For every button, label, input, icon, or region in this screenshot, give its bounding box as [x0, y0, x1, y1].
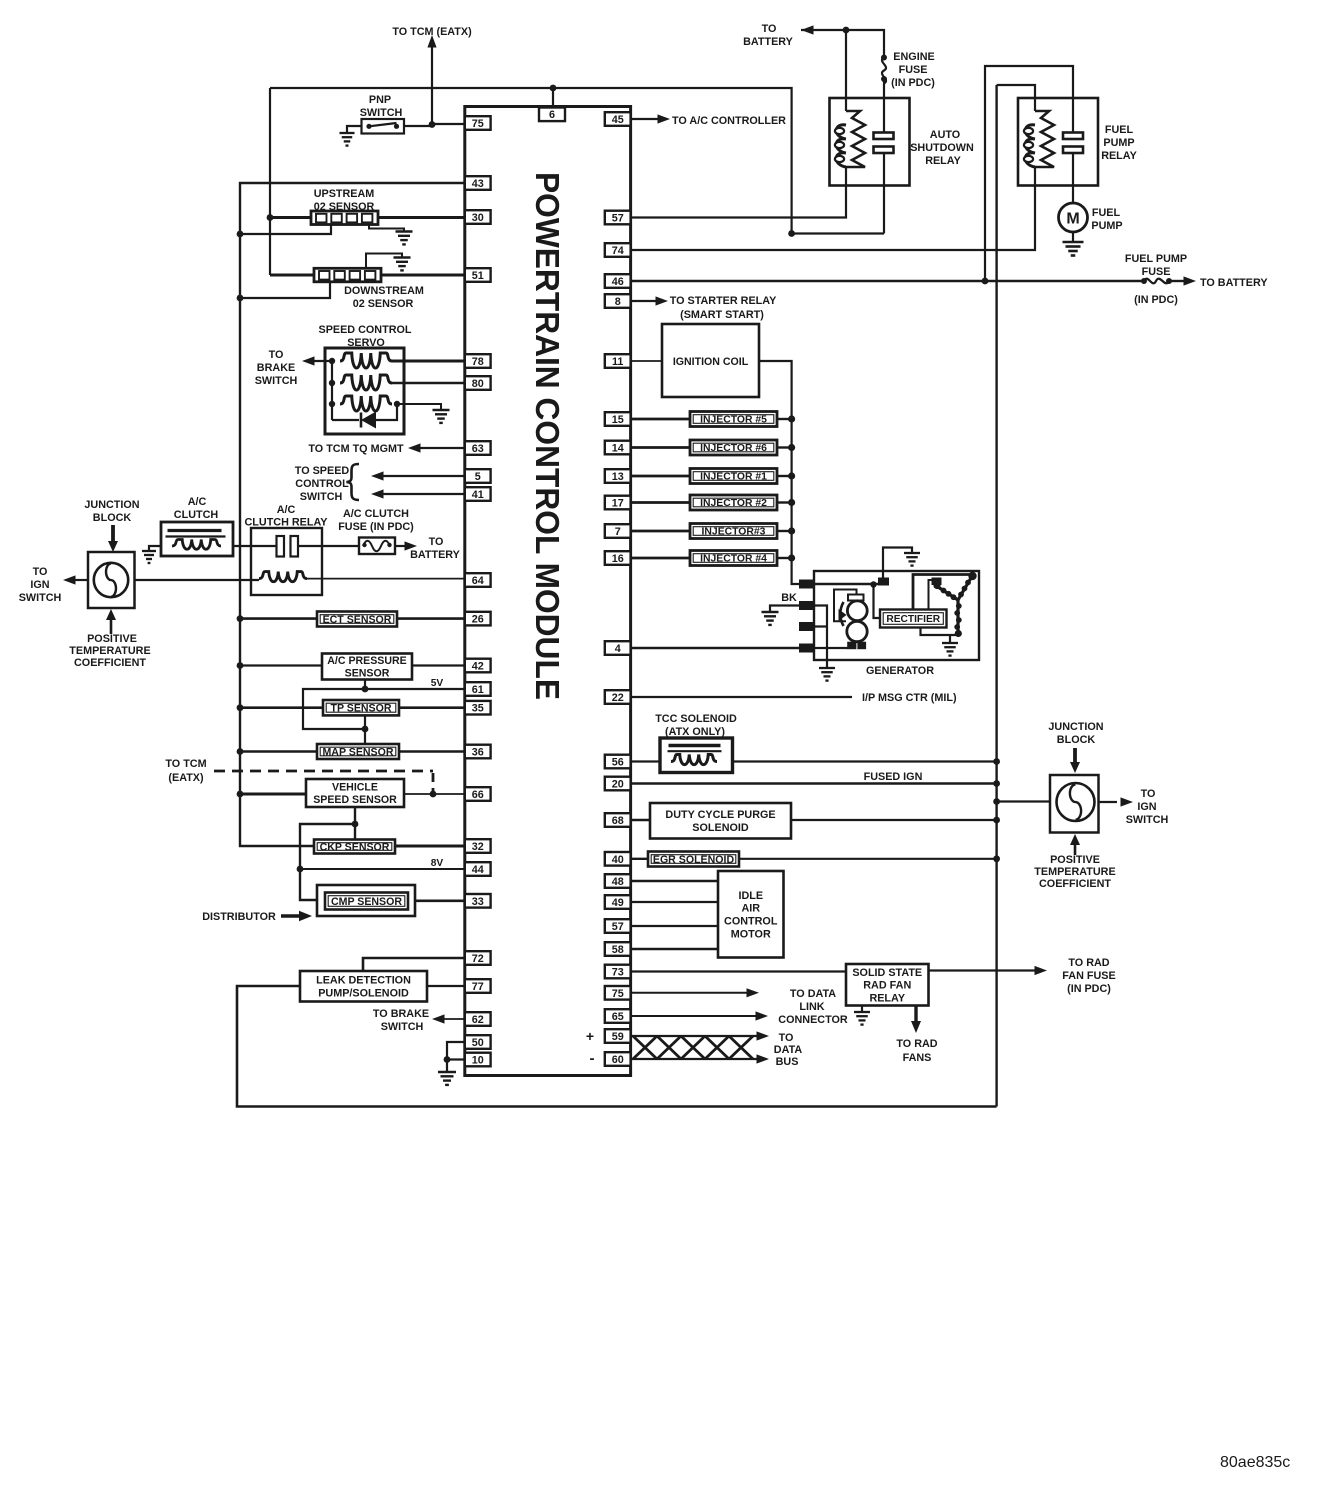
injector INJECTOR #5 box — [690, 412, 777, 427]
wire junction block top arrow stem — [111, 525, 115, 542]
wire downstream lower pin stub — [240, 282, 330, 298]
wire rectifier gnd stem — [949, 635, 951, 643]
svg-text:BRAKE: BRAKE — [257, 362, 295, 374]
svg-text:74: 74 — [612, 245, 624, 257]
wire EGR to rail — [739, 858, 997, 860]
sensor TP box — [323, 700, 399, 715]
node 8V junction — [297, 866, 304, 873]
generator terminal T4 — [800, 644, 815, 652]
node injector bus 6 — [788, 554, 795, 561]
wire data bus + line — [631, 1035, 757, 1037]
relay fuel pump contacts — [1063, 133, 1083, 140]
wire pin to INJECTOR #5 — [631, 418, 690, 421]
svg-text:32: 32 — [472, 841, 484, 853]
PCM module U1 box (POWERTRAIN CONTROL MODULE) — [465, 107, 631, 1076]
wire rad fan relay to fuse arrow — [929, 969, 1037, 971]
node servo r3 right — [394, 401, 400, 407]
PCM pin 17 (right) — [605, 496, 631, 510]
svg-text:FAN FUSE: FAN FUSE — [1062, 970, 1115, 982]
wire servo row1 to pin 78 — [392, 360, 465, 363]
arrow to data link 1 — [747, 988, 760, 997]
PCM pin 66 (left) — [465, 787, 491, 801]
arrow to rad fan fuse — [1035, 966, 1048, 975]
svg-text:BATTERY: BATTERY — [410, 549, 461, 561]
wire INJECTOR #2 to bus — [777, 501, 792, 503]
connector upstream O2 sensor — [311, 211, 378, 225]
wire 5V bus pin 61 — [303, 689, 465, 729]
PCM pin 60 (right) — [605, 1052, 631, 1066]
wire INJECTOR#3 to bus — [777, 530, 792, 532]
svg-text:14: 14 — [612, 443, 624, 455]
svg-text:(EATX): (EATX) — [168, 772, 204, 784]
wire leak box bottom loop — [237, 986, 997, 1107]
generator terminal T3 — [800, 623, 815, 631]
fuse ENGINE FUSE (IN PDC) — [881, 55, 887, 61]
node rail JB arm — [993, 798, 1000, 805]
svg-text:RELAY: RELAY — [1101, 150, 1137, 162]
leak detection box — [300, 971, 427, 1002]
generator inner frame — [913, 575, 973, 611]
svg-text:BLOCK: BLOCK — [1057, 734, 1096, 746]
svg-text:20: 20 — [612, 779, 624, 791]
svg-text:5: 5 — [475, 471, 481, 483]
svg-text:65: 65 — [612, 1011, 624, 1023]
PCM pin 35 (left) — [465, 701, 491, 715]
wire pin 65 data link arrow — [631, 1015, 757, 1017]
solenoid TCC box — [660, 738, 733, 773]
svg-text:TO TCM: TO TCM — [165, 758, 206, 770]
generator terminal T1 — [800, 580, 815, 588]
node ACP 5V — [362, 686, 369, 693]
PCM pin 33 (left) — [465, 894, 491, 908]
arrow TO TCM TQ MGMT — [408, 443, 421, 452]
wire rail to ECT — [240, 617, 317, 620]
svg-text:MOTOR: MOTOR — [731, 928, 771, 940]
svg-text:FANS: FANS — [903, 1052, 932, 1064]
node fuel pump loop — [982, 278, 989, 285]
arrow to data link 2 — [756, 1011, 769, 1020]
svg-text:A/C PRESSURE: A/C PRESSURE — [327, 655, 406, 667]
arrow TO BATTERY (right) — [1184, 276, 1197, 285]
node rail duty — [993, 817, 1000, 824]
svg-text:IDLE: IDLE — [738, 890, 763, 902]
wire downstream O2 to pin 51 — [381, 274, 465, 277]
motor idle air control box — [718, 871, 784, 958]
wire fuel pump loop left — [985, 66, 1073, 281]
svg-text:CLUTCH: CLUTCH — [174, 509, 219, 521]
junction block right body — [1050, 775, 1099, 833]
wire junction block right arm — [997, 800, 1050, 802]
solenoid duty cycle purge box — [650, 803, 791, 839]
ground G5 (A/C clutch) — [142, 550, 156, 552]
svg-text:PNP: PNP — [369, 94, 391, 106]
wire junction block right top arrow stem — [1073, 748, 1077, 763]
wire pin 5 arrow — [381, 475, 465, 477]
svg-text:(ATX ONLY): (ATX ONLY) — [665, 726, 725, 738]
brace speed control switch — [347, 464, 360, 500]
node pin10 gnd — [444, 1056, 451, 1063]
node rail fused ign — [993, 780, 1000, 787]
svg-text:TEMPERATURE: TEMPERATURE — [1034, 866, 1115, 878]
svg-text:UPSTREAM: UPSTREAM — [314, 188, 375, 200]
svg-text:BK: BK — [781, 592, 797, 604]
PCM pin 49 (right) — [605, 895, 631, 909]
svg-text:INJECTOR #4: INJECTOR #4 — [700, 554, 767, 565]
PCM pin 36 (left) — [465, 745, 491, 759]
node injector bus 2 — [788, 444, 795, 451]
wire pin 6 stem — [552, 88, 554, 108]
svg-text:56: 56 — [612, 757, 624, 769]
svg-text:+: + — [586, 1028, 594, 1044]
svg-text:80: 80 — [472, 378, 484, 390]
relay ASD contacts — [874, 133, 894, 140]
node top bus / pin6 — [550, 85, 557, 92]
wire pin 40 to EGR — [631, 858, 648, 860]
wire relay coil to pin 64 — [307, 578, 465, 580]
PCM pin 4 (right) — [605, 641, 631, 655]
PCM pin 57 (right) — [605, 211, 631, 225]
svg-text:8: 8 — [615, 296, 621, 308]
svg-text:SHUTDOWN: SHUTDOWN — [910, 142, 974, 154]
node rail ACP — [237, 662, 244, 669]
injector INJECTOR #4 box — [690, 551, 777, 566]
wire pin 45 arrow — [631, 118, 659, 120]
svg-text:BLOCK: BLOCK — [93, 512, 132, 524]
svg-text:ENGINE: ENGINE — [893, 51, 934, 63]
sensor CKP box — [314, 840, 395, 854]
svg-text:22: 22 — [612, 692, 624, 704]
arrow TO BATTERY (top) — [801, 25, 814, 34]
arrow TO BATTERY (A/C fuse) — [405, 541, 418, 550]
PCM pin 75 (left) — [465, 116, 491, 130]
node injector bus 3 — [788, 472, 795, 479]
svg-text:(SMART START): (SMART START) — [680, 309, 764, 321]
svg-text:CLUTCH RELAY: CLUTCH RELAY — [245, 517, 329, 529]
svg-text:COEFFICIENT: COEFFICIENT — [74, 657, 146, 669]
node PNP / TCM riser — [429, 121, 436, 128]
wire pin 22 MIL — [631, 696, 852, 698]
svg-text:CMP SENSOR: CMP SENSOR — [331, 896, 402, 908]
wire pin to INJECTOR #4 — [631, 557, 690, 560]
wire pin 62 brake arrow — [442, 1018, 465, 1020]
wire engine fuse to ASD contact — [883, 79, 885, 132]
svg-text:SWITCH: SWITCH — [255, 375, 298, 387]
PCM pin 80 (left) — [465, 376, 491, 390]
wire pin 4 to generator — [631, 647, 800, 649]
wire pin 75b data link arrow — [631, 992, 748, 994]
wire INJECTOR #1 to bus — [777, 475, 792, 477]
rectifier box — [880, 610, 947, 628]
wire generator field internal — [814, 583, 883, 585]
PCM pin 74 (right) — [605, 243, 631, 257]
PCM pin 42 (left) — [465, 659, 491, 673]
svg-text:41: 41 — [472, 489, 484, 501]
svg-text:TO RAD: TO RAD — [896, 1038, 937, 1050]
svg-text:66: 66 — [472, 789, 484, 801]
svg-text:INJECTOR #1: INJECTOR #1 — [700, 472, 767, 483]
servo coil row2 — [340, 375, 392, 390]
sensor VEHICLE SPEED box — [306, 779, 404, 807]
svg-text:(IN PDC): (IN PDC) — [1134, 294, 1178, 306]
svg-text:SWITCH: SWITCH — [19, 592, 62, 604]
svg-text:INJECTOR #5: INJECTOR #5 — [700, 415, 767, 426]
PCM pin 48 (right) — [605, 874, 631, 888]
generator box — [814, 571, 979, 660]
wire upstream lower pin stub — [240, 225, 331, 234]
wire rad fans arrow stem — [914, 1006, 917, 1023]
relay A/C clutch box — [251, 528, 322, 595]
svg-text:80ae835c: 80ae835c — [1220, 1454, 1290, 1471]
svg-text:PUMP/SOLENOID: PUMP/SOLENOID — [318, 988, 409, 1000]
svg-text:45: 45 — [612, 114, 624, 126]
arrow into junction block right bottom — [1070, 834, 1080, 845]
ground G8 (generator BK) — [762, 611, 779, 613]
ground G1 (PNP switch) — [340, 132, 355, 134]
injector INJECTOR #6 box — [690, 440, 777, 455]
injector INJECTOR#3 box — [690, 524, 777, 539]
wire 8V pin 44 — [300, 868, 465, 870]
arrow to A/C controller — [658, 114, 671, 123]
wire pin 41 arrow — [381, 493, 465, 495]
PCM pin 20 (right) — [605, 777, 631, 791]
ground G2 (upstream O2) — [396, 230, 413, 232]
wire upstream O2 to pin 30 — [378, 216, 465, 219]
arrow to rad fans — [911, 1021, 921, 1033]
arrow to starter relay — [656, 296, 669, 305]
relay ASD box — [830, 98, 910, 186]
injector INJECTOR #2 box — [690, 495, 777, 510]
wire VSS to pin 66 — [404, 793, 465, 795]
svg-text:57: 57 — [612, 921, 624, 933]
svg-text:13: 13 — [612, 471, 624, 483]
wire PNP to ground stem — [347, 126, 362, 133]
wire TP 5V stub — [364, 715, 366, 729]
svg-text:49: 49 — [612, 897, 624, 909]
svg-text:75: 75 — [612, 988, 624, 1000]
wire dashed TO TCM (EATX) — [214, 770, 433, 773]
svg-text:RELAY: RELAY — [869, 992, 905, 1004]
svg-text:A/C CLUTCH: A/C CLUTCH — [343, 508, 409, 520]
svg-text:TO: TO — [429, 536, 444, 548]
svg-text:INJECTOR #6: INJECTOR #6 — [700, 443, 767, 454]
wire servo row3 to ground — [397, 404, 441, 410]
svg-text:SWITCH: SWITCH — [1126, 814, 1169, 826]
wire pin to INJECTOR#3 — [631, 530, 690, 533]
svg-text:TP SENSOR: TP SENSOR — [330, 703, 391, 715]
svg-text:FUEL PUMP: FUEL PUMP — [1125, 253, 1187, 265]
wire contacts to motor — [1072, 153, 1074, 203]
svg-text:42: 42 — [472, 661, 484, 673]
PCM pin 41 (left) — [465, 487, 491, 501]
svg-text:IGN: IGN — [1137, 801, 1156, 813]
wire data bus crosshatch — [633, 1036, 753, 1059]
svg-text:46: 46 — [612, 276, 624, 288]
arrow to speed control switch 2 — [371, 489, 384, 498]
svg-text:ECT SENSOR: ECT SENSOR — [323, 614, 392, 626]
wire servo row2 to pin 80 — [392, 382, 465, 384]
arrow data bus - — [757, 1054, 770, 1063]
svg-text:TO STARTER RELAY: TO STARTER RELAY — [670, 295, 777, 307]
svg-text:EGR SOLENOID: EGR SOLENOID — [653, 854, 735, 866]
node rail B 234 — [237, 231, 244, 238]
svg-text:TEMPERATURE: TEMPERATURE — [69, 645, 150, 657]
svg-text:DISTRIBUTOR: DISTRIBUTOR — [202, 911, 276, 923]
svg-text:TO: TO — [779, 1032, 794, 1044]
wire fused ign riser top — [997, 85, 1035, 111]
wire A/C clutch to relay contact — [233, 545, 277, 547]
node generator field — [870, 581, 876, 587]
servo coil row1 — [340, 353, 392, 368]
svg-text:A/C: A/C — [277, 504, 296, 516]
PCM pin 44 (left) — [465, 862, 491, 876]
svg-text:SWITCH: SWITCH — [300, 491, 343, 503]
wire INJECTOR #5 to bus — [777, 418, 792, 420]
svg-text:TO BATTERY: TO BATTERY — [1200, 277, 1268, 289]
sensor CMP box — [325, 893, 408, 910]
arrow data bus + — [757, 1031, 770, 1040]
wire fuel pump coil to pin 74 — [631, 167, 1035, 250]
arrow to speed control switch 1 — [371, 471, 384, 480]
servo coil row3 — [340, 396, 392, 411]
node injector bus 4 — [788, 499, 795, 506]
svg-text:POSITIVE: POSITIVE — [87, 633, 137, 645]
relay fuel pump box — [1018, 98, 1098, 186]
PCM pin 11 (right) — [605, 354, 631, 368]
svg-text:(IN PDC): (IN PDC) — [891, 77, 935, 89]
PCM pin 59 (right) — [605, 1029, 631, 1043]
svg-text:7: 7 — [615, 526, 621, 538]
wire pin to INJECTOR #1 — [631, 475, 690, 478]
svg-text:SOLENOID: SOLENOID — [692, 822, 749, 834]
wire pin 10 gnd — [447, 1058, 465, 1060]
svg-text:TO: TO — [762, 23, 777, 35]
svg-text:CONNECTOR: CONNECTOR — [778, 1014, 848, 1026]
relay fuel pump coil — [1035, 111, 1054, 167]
wire T2 T3 internal gnd — [815, 606, 827, 669]
svg-text:TCC SOLENOID: TCC SOLENOID — [655, 713, 737, 725]
motor FUEL PUMP M1 — [1059, 203, 1088, 232]
sensor CMP outer box — [317, 885, 415, 916]
wire pin 50 gnd — [447, 1042, 465, 1072]
PCM pin 63 (left) — [465, 441, 491, 455]
svg-text:RELAY: RELAY — [925, 155, 961, 167]
PCM pin 7 (right) — [605, 524, 631, 538]
wire MAP to pin 36 — [399, 750, 465, 752]
svg-text:FUSE: FUSE — [899, 64, 928, 76]
wire distributor arrow — [281, 914, 301, 917]
arrow to brake switch — [302, 356, 315, 365]
svg-text:(IN PDC): (IN PDC) — [1067, 983, 1111, 995]
svg-text:30: 30 — [472, 212, 484, 224]
sensor ECT box — [317, 612, 397, 627]
svg-text:A/C: A/C — [188, 496, 207, 508]
svg-text:MAP SENSOR: MAP SENSOR — [322, 746, 393, 758]
svg-text:SWITCH: SWITCH — [381, 1021, 424, 1033]
wire CKP to pin 32 — [395, 845, 465, 848]
PCM pin 50 (left) — [465, 1035, 491, 1049]
ground G3 (downstream O2) — [394, 256, 411, 258]
wire pin to INJECTOR #6 — [631, 446, 690, 449]
wire fuse to battery arrow — [395, 545, 406, 547]
node servo r2 — [329, 380, 335, 386]
svg-text:CONTROL: CONTROL — [724, 916, 778, 928]
wire TO TCM (EATX) riser — [431, 46, 433, 124]
svg-text:PUMP: PUMP — [1091, 220, 1122, 232]
wire top bus to A/C controller loop — [270, 88, 792, 234]
node rail MAP — [237, 748, 244, 755]
arrow to brake switch (pin62) — [432, 1014, 445, 1023]
wire rail to A/C pressure — [240, 664, 322, 666]
PCM pin 68 (right) — [605, 813, 631, 827]
wire relay contact to fuse — [298, 545, 359, 547]
svg-text:78: 78 — [472, 356, 484, 368]
svg-text:4: 4 — [615, 643, 621, 655]
svg-text:FUSED IGN: FUSED IGN — [864, 771, 923, 783]
wire VSS stem to CKP — [354, 807, 356, 840]
svg-text:COEFFICIENT: COEFFICIENT — [1039, 878, 1111, 890]
node rail EGR — [993, 855, 1000, 862]
generator stator Y-winding — [938, 587, 958, 600]
ground G7 (fuel pump) — [1063, 241, 1084, 244]
PCM pin 30 (left) — [465, 210, 491, 224]
PCM pin 58 (right) — [605, 942, 631, 956]
node dashed / pin66 — [430, 791, 437, 798]
svg-text:61: 61 — [472, 684, 484, 696]
svg-text:11: 11 — [612, 356, 623, 368]
fuse FUEL PUMP FUSE (IN PDC) — [1141, 278, 1147, 284]
wire A/C clutch gnd stem — [149, 546, 161, 551]
PCM pin 75 (right) — [605, 986, 631, 1000]
svg-text:TO A/C CONTROLLER: TO A/C CONTROLLER — [672, 115, 786, 127]
wire fuse to battery (right) — [1169, 280, 1185, 282]
sensor MAP box — [317, 744, 399, 759]
svg-text:TO TCM TQ MGMT: TO TCM TQ MGMT — [308, 443, 404, 455]
wire ACP 5V stub — [364, 680, 366, 690]
svg-text:DOWNSTREAM: DOWNSTREAM — [344, 285, 424, 297]
svg-text:SPEED CONTROL: SPEED CONTROL — [319, 324, 412, 336]
switch PNP: body — [362, 119, 405, 134]
PCM pin 5 (left) — [465, 469, 491, 483]
ground G11 (generator case) — [819, 667, 835, 669]
svg-text:JUNCTION: JUNCTION — [1048, 721, 1103, 733]
svg-text:FUEL: FUEL — [1105, 124, 1134, 136]
svg-text:73: 73 — [612, 967, 624, 979]
wire field to rectifier — [874, 585, 881, 619]
PCM pin 15 (right) — [605, 412, 631, 426]
svg-text:SENSOR: SENSOR — [345, 668, 390, 680]
wire rail to VSS — [240, 793, 306, 796]
PCM pin 13 (right) — [605, 469, 631, 483]
wire A/C pressure to pin 42 — [412, 664, 465, 666]
svg-text:75: 75 — [472, 118, 484, 130]
svg-text:TO DATA: TO DATA — [790, 988, 836, 1000]
generator terminal T2 — [800, 602, 815, 610]
PCM pin 22 (right) — [605, 690, 631, 704]
wire junction block to ign switch — [74, 579, 88, 581]
ground G9 (generator top) — [904, 552, 920, 554]
svg-text:BATTERY: BATTERY — [743, 36, 794, 48]
PCM pin 32 (left) — [465, 839, 491, 853]
wire rail to TP — [240, 706, 323, 709]
svg-text:I/P MSG CTR (MIL): I/P MSG CTR (MIL) — [862, 692, 957, 704]
node rail ECT — [237, 615, 244, 622]
wire TCC to fused-ign rail — [733, 760, 997, 762]
arrow into junction block right top — [1070, 762, 1080, 773]
ignition coil box — [662, 324, 759, 397]
svg-text:10: 10 — [472, 1055, 484, 1067]
svg-text:15: 15 — [612, 414, 624, 426]
PCM pin 46 (right) — [605, 274, 631, 288]
